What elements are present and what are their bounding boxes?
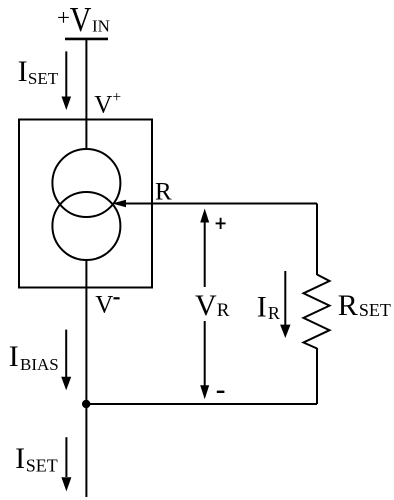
label V- — [95, 292, 119, 319]
arrow ISET (bottom, downward) — [61, 437, 71, 491]
wire from current source bottom through box to node — [85, 260, 87, 404]
svg-text:SET: SET — [359, 300, 391, 320]
svg-text:V: V — [70, 1, 92, 40]
label ISET (bottom) — [15, 442, 58, 475]
junction node (dot) — [82, 400, 90, 408]
svg-text:V: V — [94, 92, 112, 119]
label IR — [257, 291, 280, 324]
label VR — [195, 289, 230, 322]
svg-text:IN: IN — [92, 17, 110, 36]
wire from +VIN bar down to current source circle — [85, 39, 87, 150]
plus polarity sign for VR — [216, 218, 226, 229]
svg-text:I: I — [257, 291, 267, 324]
wire right branch top (from R wire corner down to resistor) — [316, 204, 318, 276]
svg-text:BIAS: BIAS — [20, 355, 59, 374]
current source block (rectangle) — [19, 120, 152, 288]
label RSET — [338, 289, 391, 322]
node +VIN supply label — [57, 1, 110, 40]
svg-text:R: R — [268, 303, 280, 323]
bottom wire from node to right branch — [86, 403, 317, 405]
svg-text:I: I — [18, 55, 28, 88]
label V+ — [94, 89, 121, 119]
VR measurement arrow (double headed, gap for label) — [200, 209, 209, 400]
svg-text:R: R — [338, 289, 358, 322]
svg-text:V: V — [95, 292, 113, 319]
resistor RSET zigzag — [304, 275, 330, 349]
wire right branch bottom (resistor to bottom wire) — [316, 348, 318, 404]
svg-text:+: + — [57, 5, 70, 30]
svg-text:SET: SET — [28, 69, 59, 88]
current source circle (bottom) — [52, 192, 120, 260]
current source circle (top) — [52, 149, 120, 217]
power terminal bar for +VIN — [65, 38, 108, 41]
svg-text:SET: SET — [26, 455, 58, 475]
wire R pin to right branch with left arrowhead — [112, 200, 317, 208]
arrow ISET (top, downward) — [62, 51, 72, 110]
svg-text:+: + — [112, 89, 121, 106]
arrow IR (downward) — [280, 271, 290, 338]
svg-text:R: R — [155, 178, 172, 205]
svg-text:I: I — [15, 442, 25, 475]
svg-text:V: V — [195, 289, 217, 322]
wire from node down to bottom edge — [85, 404, 87, 497]
minus polarity sign for VR — [217, 391, 225, 393]
svg-text:R: R — [217, 300, 230, 321]
arrow IBIAS (downward) — [61, 330, 71, 391]
label IBIAS — [9, 340, 59, 374]
label ISET (top) — [18, 55, 59, 88]
svg-text:I: I — [9, 340, 19, 373]
